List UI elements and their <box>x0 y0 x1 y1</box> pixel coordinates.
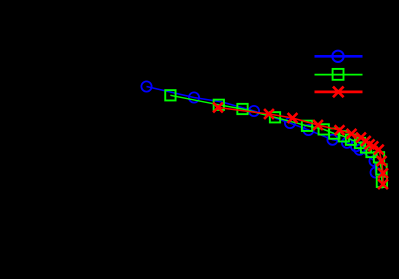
legend red line sample <box>315 91 363 94</box>
legend red X <box>333 87 344 98</box>
green square marker 2 <box>214 100 224 110</box>
legend green line sample <box>315 74 363 76</box>
red X marker 8 <box>361 136 371 146</box>
red X marker 3 <box>288 113 298 123</box>
blue circle marker 11 <box>371 167 381 177</box>
green square marker 13 <box>374 152 384 162</box>
blue circle marker 2 <box>189 92 199 102</box>
legend green square <box>333 69 344 80</box>
red X marker 14 <box>378 179 388 189</box>
green square marker 12 <box>366 147 376 157</box>
green square marker 5 <box>302 121 312 131</box>
green square marker 4 <box>270 112 280 122</box>
green square marker 1 <box>165 90 175 100</box>
green square marker 8 <box>339 131 349 141</box>
blue circle marker 6 <box>327 135 337 145</box>
green square marker 11 <box>361 142 371 152</box>
red X marker 6 <box>347 129 357 139</box>
red X marker 13 <box>378 168 388 178</box>
blue circle marker 10 <box>369 156 379 166</box>
red X marker 11 <box>374 145 384 155</box>
green series line <box>170 95 382 188</box>
blue circle marker 9 <box>354 145 364 155</box>
green square marker 14 <box>376 164 386 174</box>
red series line <box>218 108 383 185</box>
red X marker 2 <box>264 109 274 119</box>
green square marker 3 <box>237 104 247 114</box>
blue circle marker 3 <box>249 106 259 116</box>
red X marker 10 <box>368 141 378 151</box>
green square marker 7 <box>329 128 339 138</box>
blue circle marker 5 <box>303 125 313 135</box>
red X marker 4 <box>313 120 323 130</box>
blue circle marker 1 <box>141 81 151 91</box>
blue circle marker 7 <box>342 138 352 148</box>
blue series line <box>147 87 377 177</box>
green square marker 10 <box>355 138 365 148</box>
legend blue line sample <box>315 55 363 58</box>
green square marker 6 <box>319 124 329 134</box>
red X marker 1 <box>213 103 223 113</box>
green square marker 15 <box>377 177 387 187</box>
blue circle marker 8 <box>351 141 361 151</box>
legend blue circle <box>332 51 343 62</box>
red X marker 5 <box>335 125 345 135</box>
green square marker 9 <box>346 135 356 145</box>
blue circle marker 4 <box>285 118 295 128</box>
red X marker 9 <box>365 139 375 149</box>
red X marker 12 <box>377 156 387 166</box>
red X marker 7 <box>356 133 366 143</box>
